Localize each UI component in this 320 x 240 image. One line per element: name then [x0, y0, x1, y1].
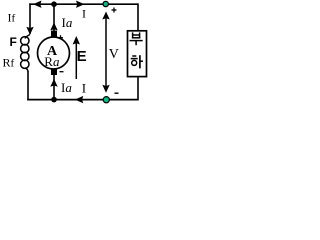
node bottom junction (dot) [51, 97, 57, 103]
arrow E emf (up) [75, 42, 77, 79]
minus near armature bottom [60, 71, 64, 73]
svg-text:E: E [77, 48, 87, 65]
svg-text:V: V [109, 47, 119, 62]
arrow left on top wire (current into field) [33, 1, 42, 8]
svg-text:Ra: Ra [44, 54, 60, 69]
wire right load branch lower [137, 77, 139, 101]
wire armature branch lower [53, 75, 55, 100]
svg-text:F: F [10, 35, 17, 49]
arrow Ia up (top) [50, 22, 57, 30]
node bottom negative terminal (green) [103, 97, 109, 103]
wire armature branch upper [53, 4, 55, 31]
brush terminal top (black square) [51, 31, 57, 37]
load box [128, 31, 147, 77]
plus near armature top [58, 35, 63, 40]
label 하 (load syllable 2) [131, 55, 143, 68]
wire right load branch upper [137, 3, 139, 31]
brush terminal bottom (black square) [51, 69, 57, 75]
arrow V down (bottom) [102, 85, 109, 93]
arrow down on field branch [26, 27, 33, 35]
svg-text:I: I [82, 80, 86, 95]
arrow Ia up (bottom) [50, 79, 57, 87]
armature circle U (machine) [38, 37, 70, 69]
plus near top green node [112, 8, 117, 13]
arrow left on bottom wire [75, 96, 84, 103]
wire top horizontal [29, 3, 138, 5]
svg-text:I: I [82, 7, 86, 21]
wire left field branch lower [27, 71, 29, 100]
node top positive terminal (green) [103, 1, 108, 6]
wire V measurement line [105, 16, 107, 88]
minus near bottom green node [115, 92, 119, 94]
wire bottom horizontal [27, 99, 138, 101]
svg-text:Ia: Ia [61, 80, 72, 95]
arrow V up (top) [102, 12, 109, 20]
label 부 (load syllable 1) [130, 32, 143, 45]
svg-text:Rf: Rf [3, 56, 15, 70]
arrow I right on top wire [76, 1, 85, 8]
svg-text:Ia: Ia [62, 15, 73, 30]
svg-text:If: If [8, 11, 16, 25]
wire left field branch upper [29, 3, 31, 34]
inductor coil field winding F [21, 35, 30, 72]
node top junction (dot) [51, 1, 57, 7]
